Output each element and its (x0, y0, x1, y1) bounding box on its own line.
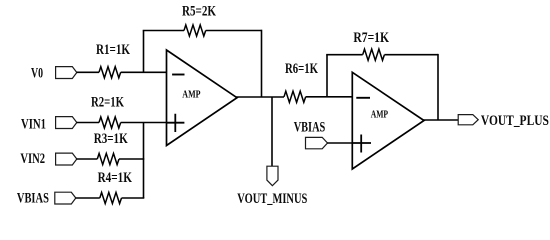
svg-text:VOUT_PLUS: VOUT_PLUS (481, 113, 549, 129)
svg-text:VBIAS: VBIAS (294, 119, 326, 135)
wire feedback2 right vertical (437, 54, 439, 120)
wire VIN1 to R2 (77, 122, 100, 124)
resistor R1 (99, 67, 121, 78)
svg-text:VIN2: VIN2 (20, 151, 45, 167)
op-amp U2 minus sign (356, 97, 370, 99)
terminal VOUT_MINUS (267, 166, 278, 186)
svg-text:R5=2K: R5=2K (182, 3, 217, 19)
svg-text:R6=1K: R6=1K (285, 61, 319, 77)
svg-text:VIN1: VIN1 (21, 117, 46, 133)
svg-text:V0: V0 (31, 65, 43, 81)
wire R4 to bus (122, 197, 145, 199)
svg-text:AMP: AMP (182, 89, 200, 101)
op-amp U1 plus sign (167, 114, 184, 132)
svg-text:R1=1K: R1=1K (96, 42, 131, 58)
wire feedback right vertical (261, 30, 263, 97)
resistor R7 (363, 49, 385, 60)
resistor R6 (284, 91, 306, 102)
wire R6 to op-amp2 minus input (306, 96, 353, 98)
wire op-amp1 output (236, 96, 284, 98)
op-amp U1 (167, 50, 238, 146)
wire R3 to bus (119, 158, 144, 160)
wire VBIAS to op-amp2 plus input (327, 142, 352, 144)
wire R1 to op-amp minus input (121, 71, 167, 73)
svg-text:AMP: AMP (371, 108, 389, 120)
svg-text:R2=1K: R2=1K (91, 95, 125, 111)
svg-text:R7=1K: R7=1K (353, 30, 389, 46)
wire VBIAS to R4 (76, 197, 100, 199)
svg-text:R3=1K: R3=1K (94, 131, 129, 147)
node junction feedback left (143, 31, 145, 73)
wire R2 to op-amp plus input (121, 122, 167, 124)
svg-text:VBIAS: VBIAS (17, 190, 49, 206)
wire VOUT_MINUS drop (271, 97, 273, 166)
op-amp U1 minus sign (172, 74, 184, 76)
terminal V0 (56, 67, 77, 79)
wire VIN2 to R3 (77, 158, 98, 160)
terminal VBIAS mid (306, 137, 328, 148)
wire feedback2 top left (326, 54, 363, 56)
op-amp U2 plus sign (353, 135, 371, 153)
terminal VBIAS (55, 192, 76, 204)
op-amp U2 (352, 72, 424, 169)
resistor R4 (100, 192, 122, 203)
wire feedback top left (143, 30, 184, 32)
svg-text:VOUT_MINUS: VOUT_MINUS (237, 191, 307, 207)
resistor R5 (184, 25, 206, 36)
resistor R3 (97, 153, 119, 164)
terminal VIN1 (56, 117, 77, 129)
svg-text:R4=1K: R4=1K (98, 170, 133, 186)
resistor R2 (99, 117, 121, 128)
terminal VOUT_PLUS (458, 115, 478, 125)
node bus vertical (143, 123, 145, 199)
wire feedback top right (206, 30, 262, 32)
wire feedback2 top right (384, 54, 438, 56)
wire V0 to R1 (77, 71, 100, 73)
wire feedback2 left vertical (326, 55, 328, 97)
wire op-amp2 output (423, 119, 458, 121)
terminal VIN2 (56, 153, 77, 165)
